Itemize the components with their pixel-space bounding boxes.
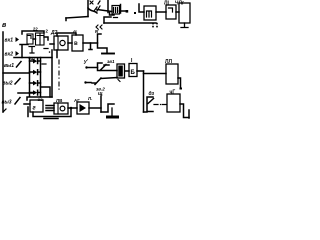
svg-text:в: в (74, 41, 78, 47)
svg-text:ЛВ: ЛВ (56, 98, 63, 103)
amplifier A4 triangle (80, 104, 87, 112)
wire bus y=23 (104, 22, 156, 24)
wire vertical x=52 (51, 50, 53, 97)
terminal stroke вы1 (17, 62, 22, 68)
wire A3-A4 (68, 107, 77, 109)
svg-text:ЧЛг: ЧЛг (175, 1, 184, 7)
node stub right y=64 (42, 63, 46, 65)
wire end vertical (188, 110, 190, 118)
trigger T1 small box (27, 34, 33, 44)
antenna symbol (29, 47, 35, 54)
wire inputs to A3 (46, 106, 54, 111)
svg-text:вх2: вх2 (5, 52, 14, 58)
trigger T2 inner marks (37, 35, 43, 37)
diode VD4 (30, 90, 41, 95)
ground G bottom (111, 108, 113, 116)
wire L1 output hook (178, 78, 181, 88)
amplifier A3 box (54, 103, 68, 114)
wire hook y=87 (41, 87, 51, 97)
wire to SB2 (86, 82, 92, 84)
wire rail branch y=73 (3, 72, 30, 74)
wire y=57.5 collector (14, 57, 52, 59)
wire corner under (110, 13, 115, 16)
terminal arrow вх2 (16, 51, 20, 56)
wire corner under VT1 (104, 17, 111, 23)
wire branch y=73.5 (144, 73, 167, 75)
node glyph У (94, 1, 100, 11)
ground bar C1 (102, 53, 114, 55)
trigger T1 inner mark (28, 36, 31, 39)
wire stub x=28 (27, 107, 29, 117)
svg-text:вы2: вы2 (3, 81, 13, 87)
node glyph Ш (90, 1, 93, 4)
wire G1 bottom loop (33, 108, 71, 117)
wire VT1 output (120, 10, 128, 12)
svg-text:вы1: вы1 (4, 63, 14, 69)
terminal stroke вы2 (15, 79, 20, 85)
terminal stroke вы3 (15, 98, 20, 105)
wire A4 output (89, 107, 101, 109)
wire A1-A2 (68, 42, 72, 44)
wire step (101, 104, 114, 112)
wire drop x=90.5 (89, 43, 92, 50)
diode VD1 (30, 59, 41, 64)
svg-text:22: 22 (33, 27, 38, 32)
node dot wire2 (84, 81, 86, 83)
resistor R2 box (166, 5, 176, 19)
block L1 box (166, 64, 178, 84)
contact K1 blade (148, 99, 154, 104)
resistor R3 box (179, 3, 190, 23)
block U2 box (129, 64, 137, 77)
node dot L1 out (180, 88, 183, 90)
node dotted marks under R1 (153, 24, 157, 27)
terminal arrow вх1 (16, 37, 20, 42)
wire T1 output hook (180, 104, 189, 118)
wire dashdot to T1 (154, 104, 167, 106)
wire top of A1 (57, 33, 76, 36)
wire T1-T2 (33, 38, 36, 40)
amplifier A3 circle (60, 106, 65, 111)
wire T2 output (44, 37, 48, 40)
capacitor C1 lead (98, 34, 108, 54)
amplifier A1 divider (57, 36, 59, 50)
wire bottom link y=112 (144, 111, 148, 113)
wire R2 to R3 (176, 11, 179, 13)
wire curve to cluster U3 (88, 8, 97, 13)
diode VD3 (30, 81, 41, 86)
wire tick x=120 (120, 5, 122, 14)
amplifier A3 divider (57, 103, 59, 114)
resistor R1 box (144, 6, 156, 20)
node junction dot (70, 107, 73, 110)
node dot (134, 12, 136, 14)
amplifier A4 box (77, 102, 89, 114)
amplifier A1 circle (60, 40, 65, 45)
contact K1 frame (147, 97, 153, 112)
wire dashdot x=59 (58, 60, 60, 89)
transistor VT1 box (112, 6, 120, 15)
wire U1-U2 (126, 70, 130, 72)
wire vertical x=101 (100, 96, 102, 112)
block U1 box (117, 64, 125, 78)
wire y=44.5 (20, 44, 28, 46)
amplifier A2 box (72, 35, 83, 51)
wire vertical x=107.3 (107, 0, 109, 13)
wire A1 bottom (56, 50, 58, 58)
wire R1 to R2 (156, 11, 166, 13)
svg-text:дз: дз (149, 91, 155, 97)
wire bracket to R1 (139, 4, 144, 12)
wire top of trigger y=31 (22, 31, 44, 34)
node dash-dot (44, 49, 50, 53)
wire y=97 (27, 97, 52, 100)
svg-text:зв1: зв1 (107, 59, 115, 64)
ground under R3 (181, 23, 188, 28)
resistor R2 inner glyph (169, 8, 173, 12)
switch SB2 (92, 78, 101, 85)
ground bar thick (106, 116, 119, 119)
amplifier A1 box (54, 36, 68, 50)
wire diode left bus (29, 58, 31, 97)
switch SB1 (98, 63, 118, 71)
svg-text:Б: Б (131, 70, 136, 76)
node tick at x=66 (65, 18, 67, 21)
generator G1 box (30, 100, 43, 112)
svg-text:у': у' (83, 59, 89, 65)
wire A2 output (83, 42, 98, 44)
svg-text:Л.: Л. (88, 96, 92, 101)
trigger T2 divider (39, 33, 41, 45)
node dot wire1 (85, 66, 87, 68)
wire vertical x=22 (21, 45, 23, 58)
svg-text:вы3: вы3 (2, 100, 12, 106)
wire to SB1 (87, 67, 98, 69)
svg-text:вх1: вх1 (5, 38, 14, 44)
svg-text:ЛІ: ЛІ (164, 1, 170, 7)
wire vertical top x=88 (87, 0, 89, 17)
block U1 dark bar (118, 66, 123, 77)
transistor VT1 inner marks (114, 8, 118, 18)
node junction square (126, 10, 129, 13)
wire lower y=118.5 (44, 118, 58, 120)
wire SB2 to U1 (101, 78, 117, 79)
wire left rail x=3 (2, 32, 4, 112)
trigger T2 box (36, 33, 45, 45)
wire branch y=93 (18, 92, 33, 94)
node marks ⟨⟨ (96, 25, 102, 29)
wire U2 output (137, 70, 144, 72)
wire diode right bus (40, 58, 42, 98)
wire long vertical x=143.5 (143, 71, 145, 112)
block T1 box (167, 94, 180, 112)
node tick under U1 (118, 80, 120, 82)
wire G1 input (24, 103, 30, 105)
resistor R1 inner glyph (147, 11, 152, 17)
wire A1 left stub (50, 43, 54, 45)
wire into U3 y=9 (97, 10, 112, 12)
wire horizontal y=17 (66, 17, 88, 19)
diode VD2 (30, 70, 41, 75)
